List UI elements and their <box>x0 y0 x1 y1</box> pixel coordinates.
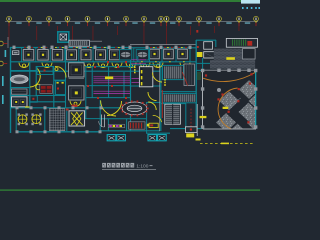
banquet divider line <box>69 78 84 80</box>
lobby walls <box>131 56 197 133</box>
dim text 12 <box>206 22 211 24</box>
top wall right <box>130 47 196 49</box>
door knob <box>87 64 90 67</box>
grid tick 12 <box>199 23 200 27</box>
grid tick base 2 <box>28 21 30 23</box>
annex red mark <box>197 46 199 48</box>
grid tick base 14 <box>238 21 240 23</box>
teal room small <box>37 67 53 75</box>
yellow wall mark <box>55 46 57 49</box>
corridor door arc <box>70 63 80 68</box>
cooling unit X-box <box>107 135 116 141</box>
yellow label in ballroom <box>223 107 229 109</box>
yellow dash 2 <box>134 72 136 74</box>
bottom band walls <box>16 100 146 132</box>
crosshatch stairwell <box>49 109 64 131</box>
left dim text 2 <box>2 76 4 86</box>
top green border line <box>0 0 241 2</box>
lobby door arc big 2 <box>148 92 157 101</box>
grid tick 4 <box>67 23 68 27</box>
wall x65 <box>65 47 67 108</box>
grid bubble 1 <box>7 16 12 21</box>
green hatch small <box>197 73 201 79</box>
column bottom <box>44 130 47 133</box>
red leader line <box>189 26 192 35</box>
granite diamond <box>249 92 269 111</box>
top white line right section <box>130 44 196 46</box>
column <box>160 46 163 49</box>
column bottom <box>16 130 19 133</box>
corridor door arc <box>140 63 150 68</box>
red door mark <box>59 47 61 48</box>
grid tick base 8 <box>143 21 145 23</box>
colored furniture row <box>108 124 124 127</box>
ballroom column top <box>227 69 230 72</box>
grid bubble 7 <box>124 16 129 21</box>
ballroom column right <box>254 125 257 128</box>
ballroom column left <box>201 125 204 128</box>
guest room R3 <box>178 49 188 59</box>
top-right cyan bar <box>241 0 260 4</box>
red leader line <box>56 26 59 35</box>
bottom wall right <box>170 128 203 130</box>
ballroom column left <box>201 69 204 72</box>
left dim text 3 <box>2 95 4 104</box>
red leader line <box>238 26 241 31</box>
yellow dash mark 2 <box>196 139 201 141</box>
grid tick 3 <box>49 23 50 27</box>
column <box>51 46 54 49</box>
room divider <box>92 48 94 62</box>
column <box>43 46 46 49</box>
bright wall line x160 <box>159 62 161 131</box>
corridor door arc <box>98 63 108 68</box>
cooling unit X-box <box>117 135 126 141</box>
grid tick 8 <box>144 23 145 27</box>
bottom green border line <box>0 189 260 190</box>
top-right cyan ticks <box>242 7 260 9</box>
room divider <box>149 48 151 62</box>
ballroom column right <box>254 106 257 109</box>
banquet room A <box>69 63 84 77</box>
guest room M4 <box>110 50 120 60</box>
dimension line <box>5 21 258 23</box>
red door mark <box>171 47 173 48</box>
red leader line <box>92 26 95 40</box>
column <box>13 46 16 49</box>
grey dot in ballroom <box>217 88 221 92</box>
rooftop stair top right <box>226 38 257 47</box>
grid tick base 9 <box>160 21 162 23</box>
ballroom annex rooms <box>204 42 215 58</box>
yellow label box SB <box>186 133 194 137</box>
column bottom <box>72 130 75 133</box>
svg-text:1:100: 1:100 <box>136 164 148 170</box>
grid tick base 5 <box>87 21 89 23</box>
grid tick base 12 <box>198 21 200 23</box>
ballroom column top <box>247 69 250 72</box>
grid bubble 14 <box>237 16 242 21</box>
corridor wall yellow dash <box>155 60 157 63</box>
grid tick 7 <box>126 23 127 27</box>
small teal box with red dot <box>30 96 38 102</box>
grid bubble 6 <box>105 16 110 21</box>
column bottom <box>30 130 33 133</box>
dim text 11 <box>186 22 191 24</box>
red leader line <box>71 26 74 40</box>
grid tick 5 <box>87 23 88 27</box>
column bottom <box>99 130 102 133</box>
annex walls <box>196 58 216 70</box>
checker red corner dots <box>205 73 253 123</box>
yellow dashed line below ballroom <box>200 142 254 144</box>
grid tick base 15 <box>255 21 257 23</box>
white service rect <box>185 127 197 133</box>
brick yellow label <box>226 57 235 60</box>
room divider <box>133 48 135 62</box>
corridor door arc <box>112 63 122 68</box>
grid tick base 11 <box>178 21 180 23</box>
grid tick 10 <box>166 23 167 27</box>
column low <box>58 106 61 109</box>
red door mark <box>122 47 124 48</box>
grid tick 13 <box>219 23 220 27</box>
yellow wall mark <box>62 46 64 49</box>
column low <box>72 106 75 109</box>
red door mark <box>164 47 166 48</box>
guest room R2 <box>164 49 174 59</box>
grid tick 15 <box>256 23 257 27</box>
magenta table row <box>94 82 131 84</box>
top wall left wing <box>10 47 48 49</box>
guest room R1 <box>150 49 160 59</box>
column <box>94 46 97 49</box>
door knob <box>156 64 159 67</box>
door knob <box>101 64 104 67</box>
yellow wall mark <box>167 46 169 49</box>
red leader line <box>8 26 11 40</box>
corridor door arc <box>42 63 52 68</box>
yellow wall mark <box>90 46 92 49</box>
meeting room walls <box>10 62 66 108</box>
room divider <box>175 48 177 62</box>
red leader line <box>116 26 119 35</box>
ballroom column right <box>254 69 257 72</box>
grid tick base 4 <box>67 21 69 23</box>
yellow wall mark <box>118 46 120 49</box>
dim text 8 <box>150 22 155 24</box>
main stair lower <box>165 104 181 124</box>
mid block walls <box>86 62 134 108</box>
dim text 7 <box>132 22 137 24</box>
red leader line <box>165 26 168 45</box>
column low <box>30 106 33 109</box>
granite diamond <box>216 113 236 132</box>
ballroom upper arc <box>203 72 256 81</box>
lower band top wall <box>10 107 130 109</box>
annex right wall <box>215 40 217 47</box>
left grid bubble <box>0 41 3 46</box>
granite diamond <box>219 91 239 110</box>
red door mark <box>45 47 47 48</box>
title trailing dash <box>150 164 153 167</box>
room divider <box>189 48 191 62</box>
red door marks low band <box>72 105 78 107</box>
red junction dot <box>111 85 113 87</box>
door knob south <box>74 102 77 105</box>
granite diamond <box>239 103 259 122</box>
yellow wall mark <box>27 46 29 49</box>
door arcs lobby south <box>101 101 116 117</box>
red dashed vertical <box>190 109 192 131</box>
fan table room 1 <box>119 50 131 60</box>
red junction dot <box>117 66 119 68</box>
red door mark <box>87 47 89 48</box>
title text row <box>102 163 134 168</box>
grid tick 1 <box>9 23 10 27</box>
red junction dot <box>94 66 96 68</box>
ballroom column top <box>217 69 220 72</box>
cooling unit X-box <box>158 135 167 141</box>
door knob <box>45 64 48 67</box>
magenta table row right <box>132 63 147 65</box>
large door arc left <box>30 68 40 87</box>
grid bubble 2 <box>27 16 32 21</box>
white door + arc <box>99 115 105 128</box>
wall <box>10 70 36 72</box>
column bottom <box>58 130 61 133</box>
highlighted yellow table <box>105 76 113 79</box>
dim text 10 <box>170 22 175 24</box>
small round table <box>36 84 42 90</box>
red door mark <box>31 47 33 48</box>
yellow dash 2 <box>134 67 136 69</box>
red door mark bottom band <box>66 109 69 111</box>
long stair bottom <box>163 93 196 102</box>
dim text 1 <box>16 22 21 24</box>
red door mark <box>115 47 117 48</box>
grid bubble 11 <box>177 16 182 21</box>
round table room 2 <box>31 113 41 125</box>
magenta table row right <box>132 82 147 84</box>
room divider <box>161 48 163 62</box>
door knob <box>115 64 118 67</box>
column low <box>100 106 103 109</box>
red bed furniture <box>40 85 53 94</box>
corridor door arc <box>126 63 136 68</box>
annex top wall <box>196 39 216 41</box>
grid bubble 10 <box>164 16 169 21</box>
ballroom column left <box>201 106 204 109</box>
red junction dot <box>107 61 109 63</box>
grid bubble 12 <box>197 16 202 21</box>
sideboard room <box>12 89 28 94</box>
door knob <box>129 64 132 67</box>
room inside bricks <box>243 49 256 59</box>
door knob <box>143 64 146 67</box>
cooling unit X-box <box>148 135 157 141</box>
grid tick 11 <box>179 23 180 27</box>
dim text 3 <box>56 22 61 24</box>
dim text 14 <box>245 22 250 24</box>
twin-bed room box <box>12 97 28 107</box>
granite diamond <box>228 124 248 143</box>
room label box left <box>13 51 19 55</box>
left dimension line <box>7 37 9 48</box>
stair treads upper <box>163 65 184 79</box>
yellow label left of ballroom <box>200 116 207 118</box>
room divider <box>21 48 23 62</box>
column bottom <box>86 130 89 133</box>
column <box>79 46 82 49</box>
ballroom column right <box>254 87 257 90</box>
lobby arc 3 <box>148 102 156 110</box>
yellow knob <box>55 68 58 71</box>
room divider <box>64 48 66 62</box>
corridor door arc <box>153 63 163 68</box>
grid tick 9 <box>161 23 162 27</box>
column <box>146 46 149 49</box>
yellow dash mark <box>221 143 229 145</box>
magenta table row <box>94 80 131 82</box>
magenta table row <box>94 76 131 78</box>
red leader line <box>35 26 38 40</box>
dim text 5 <box>95 22 100 24</box>
wall x161 <box>160 62 162 131</box>
grid tick base 10 <box>166 21 168 23</box>
red door mark <box>94 47 96 48</box>
yellow wall mark <box>41 46 43 49</box>
yellow label box with red <box>149 123 158 127</box>
red door mark <box>108 47 110 48</box>
stairwell X-box top <box>58 32 69 42</box>
grid tick base 6 <box>107 21 109 23</box>
column <box>122 46 125 49</box>
grid bubble 5 <box>85 16 90 21</box>
top wall mid <box>56 47 130 49</box>
escalator handrail line <box>89 40 102 42</box>
guest room L3 <box>52 50 63 61</box>
guest room L2 <box>38 50 49 61</box>
door knob <box>183 64 186 67</box>
bottom wall mid <box>100 130 160 132</box>
corridor wall lower <box>10 70 160 72</box>
magenta table row <box>94 92 131 94</box>
left grid bubble <box>0 61 3 66</box>
red stair edge line <box>161 90 163 118</box>
grid tick 14 <box>239 23 240 27</box>
left exterior wall <box>10 47 12 133</box>
corridor wall upper <box>10 61 196 63</box>
yellow wall mark <box>181 46 183 49</box>
corridor wall yellow dash <box>169 60 171 63</box>
granite diamond <box>239 80 259 99</box>
room divider <box>35 48 37 62</box>
left dim text <box>5 50 7 57</box>
grid tick 2 <box>29 23 30 27</box>
door arcs lobby south 2 <box>107 101 122 116</box>
grid bubble 3 <box>47 16 52 21</box>
corridor wall yellow dash <box>141 60 143 63</box>
magenta table row <box>94 90 131 92</box>
guest room M2 <box>81 50 91 60</box>
left grid tick <box>3 63 7 64</box>
title underline <box>102 168 156 170</box>
bottom exterior wall left <box>16 131 100 133</box>
corridor door arc <box>180 63 190 68</box>
red door mark <box>101 47 103 48</box>
grid bubble 4 <box>65 16 70 21</box>
dim text 13 <box>226 22 231 24</box>
red junction dot <box>125 97 127 99</box>
red leader line <box>213 26 216 33</box>
door arc south rooms <box>70 101 81 107</box>
yellow annex box <box>197 52 203 57</box>
column <box>108 46 111 49</box>
elevator shaft tall <box>184 64 194 85</box>
granite diamond <box>247 114 267 133</box>
room divider <box>49 48 51 62</box>
column <box>175 46 178 49</box>
dim text 6 <box>114 22 119 24</box>
label leader line <box>226 98 241 107</box>
oval conference table <box>10 75 28 83</box>
column <box>189 46 192 49</box>
ballroom floor <box>203 70 256 128</box>
grid bubble 13 <box>217 16 222 21</box>
grid bubble 9 <box>159 16 164 21</box>
column <box>28 46 31 49</box>
column <box>129 46 132 49</box>
bottom wall step <box>146 132 170 134</box>
yellow wall mark <box>104 46 106 49</box>
yellow dash top wall low band <box>25 106 29 107</box>
grid tick base 1 <box>8 21 10 23</box>
lobby door arc big <box>153 73 163 83</box>
red door mark <box>24 47 26 48</box>
wall x130 <box>130 47 132 131</box>
red junction dot <box>87 85 89 87</box>
red door mark <box>80 47 82 48</box>
magenta table row right <box>132 78 147 80</box>
red door mark <box>150 47 152 48</box>
room divider <box>78 48 80 62</box>
round table room 1 <box>18 113 28 125</box>
red diagonal break line <box>182 72 187 86</box>
magenta table row right <box>132 59 147 61</box>
white wall line right <box>196 104 198 136</box>
corridor door arc <box>19 63 29 68</box>
cabinet room right of oval <box>56 81 66 95</box>
oval banquet table <box>120 101 148 117</box>
door arc 2 <box>55 66 66 77</box>
column low <box>44 106 47 109</box>
wall x196 <box>195 40 197 129</box>
grid tick 6 <box>107 23 108 27</box>
dim text 4 <box>75 22 80 24</box>
yellow dash <box>164 82 166 84</box>
red door mark <box>178 47 180 48</box>
corridor wall yellow dash <box>183 60 185 63</box>
grid tick base 13 <box>218 21 220 23</box>
banquet room B <box>69 86 84 100</box>
fan room <box>69 111 85 126</box>
yellow dash <box>164 84 166 86</box>
ballroom column left <box>201 87 204 90</box>
grid bubble 15 <box>254 16 259 21</box>
guest room M3 <box>96 50 106 60</box>
ballroom left arc <box>218 88 237 129</box>
